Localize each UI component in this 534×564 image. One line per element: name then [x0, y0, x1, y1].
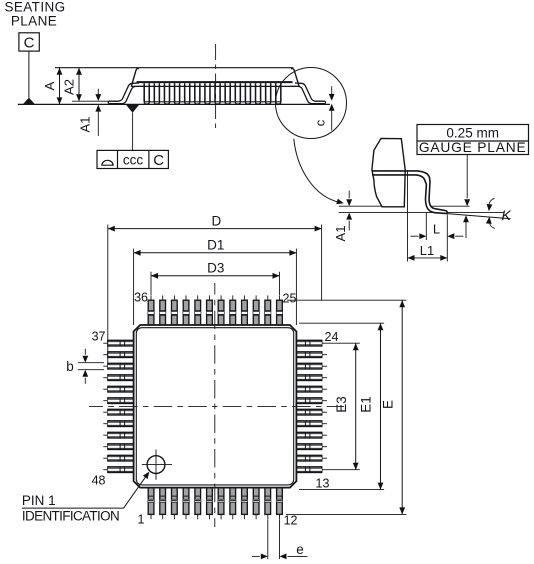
- pin 12 lead: [277, 487, 283, 519]
- svg-text:E1: E1: [358, 396, 373, 413]
- dimension c (in circle): [313, 86, 335, 130]
- ccc datum triangle: [126, 105, 140, 113]
- pin 23 lead: [296, 352, 327, 358]
- svg-text:PIN 1: PIN 1: [22, 493, 56, 508]
- pin 17 lead: [296, 421, 327, 427]
- svg-text:SEATING: SEATING: [4, 0, 65, 15]
- pin 25 lead: [277, 295, 283, 325]
- pin 6 lead: [207, 487, 213, 519]
- package body outer outline (chamfered): [134, 325, 297, 488]
- svg-text:c: c: [313, 119, 328, 126]
- pin 45 lead: [103, 432, 133, 438]
- svg-text:K: K: [502, 207, 512, 223]
- svg-text:12: 12: [284, 514, 298, 528]
- pin 20 lead: [296, 386, 327, 392]
- pin 16 lead: [296, 432, 327, 438]
- pin 11 lead: [265, 487, 271, 519]
- svg-text:b: b: [66, 359, 74, 374]
- pin 10 lead: [253, 487, 259, 519]
- pin 34 lead: [172, 295, 178, 325]
- pin 3 lead: [172, 487, 178, 519]
- comb far-lead bottom line: [144, 101, 281, 103]
- dimension K arcs: [486, 198, 512, 228]
- dimension D: [108, 214, 322, 363]
- pin 13 lead: [296, 467, 327, 473]
- svg-text:D1: D1: [207, 238, 224, 253]
- side view lead comb (near-side leads): [144, 83, 281, 102]
- dimension L: [410, 222, 463, 240]
- seating plane label: [4, 0, 65, 29]
- svg-text:1: 1: [138, 512, 145, 526]
- pin 44 lead: [103, 421, 133, 427]
- side view center line: [215, 44, 217, 131]
- svg-text:D: D: [212, 214, 222, 229]
- svg-text:L: L: [433, 222, 440, 237]
- dimension E3: [327, 343, 360, 470]
- svg-text:IDENTIFICATION: IDENTIFICATION: [22, 509, 119, 524]
- side view body bottom / lead shoulder lines: [137, 81, 293, 83]
- pin 5 lead: [195, 487, 201, 519]
- pin 37 lead: [103, 340, 133, 346]
- pin 1 lead: [148, 487, 154, 519]
- svg-text:24: 24: [325, 330, 339, 344]
- dimension A1 (detail): [333, 191, 352, 242]
- pin 21 lead: [296, 375, 327, 381]
- pin 29 lead: [230, 295, 236, 325]
- dimension e: [252, 520, 308, 560]
- A2/A1 extension line at standoff: [72, 100, 110, 102]
- pin 26 lead: [265, 295, 271, 325]
- pin 22 lead: [296, 363, 327, 369]
- pin 1 identification label and leader: [22, 470, 152, 524]
- svg-text:48: 48: [92, 474, 106, 488]
- pin 36 lead: [148, 295, 154, 325]
- svg-text:E3: E3: [334, 396, 349, 413]
- datum C box: [19, 33, 39, 98]
- pin 1 identification circle: [142, 450, 172, 480]
- pin 2 lead: [160, 487, 166, 519]
- detail zoom circle: [276, 68, 347, 139]
- pin 38 lead: [103, 352, 133, 358]
- svg-text:L1: L1: [420, 243, 434, 258]
- pin 32 lead: [195, 295, 201, 325]
- svg-text:A1: A1: [333, 226, 348, 242]
- gauge plane leader arrows: [466, 155, 468, 199]
- pin 35 lead: [160, 295, 166, 325]
- top view horizontal center line: [89, 405, 344, 407]
- detail body blob: [372, 138, 405, 206]
- pin 7 lead: [218, 487, 224, 519]
- top view vertical center line: [214, 283, 216, 527]
- comb feet: [144, 102, 281, 104]
- pin 42 lead: [103, 398, 133, 404]
- pin 33 lead: [183, 295, 189, 325]
- pin 48 lead: [103, 467, 133, 473]
- dimension A1 (side view): [78, 89, 102, 136]
- pin 9 lead: [242, 487, 248, 519]
- svg-text:PLANE: PLANE: [11, 14, 57, 29]
- svg-text:C: C: [24, 34, 35, 51]
- datum C triangle on seating plane: [23, 98, 35, 105]
- svg-text:0.25 mm: 0.25 mm: [446, 125, 499, 140]
- dimension b: [66, 349, 104, 384]
- pin 41 lead: [103, 386, 133, 392]
- pin 27 lead: [253, 295, 259, 325]
- detail lead: [408, 171, 447, 214]
- dimension E: [286, 300, 406, 514]
- pin 19 lead: [296, 398, 327, 404]
- pin 46 lead: [103, 444, 133, 450]
- svg-text:37: 37: [92, 330, 106, 344]
- pin 8 lead: [230, 487, 236, 519]
- pin 14 lead: [296, 455, 327, 461]
- svg-text:A1: A1: [78, 117, 93, 133]
- pin 47 lead: [103, 455, 133, 461]
- seating plane line (detail): [339, 212, 504, 214]
- package body inner outline: [136, 328, 293, 485]
- gauge plane box: [417, 125, 529, 156]
- pin 4 lead: [183, 487, 189, 519]
- svg-text:ccc: ccc: [123, 152, 144, 167]
- L/L1 extension lines: [408, 172, 448, 262]
- svg-text:25: 25: [283, 292, 297, 306]
- pin 18 lead: [296, 409, 327, 415]
- pin 15 lead: [296, 444, 327, 450]
- dimension L1: [408, 243, 448, 261]
- curved leader from circle to detail: [294, 139, 341, 203]
- package bottom / gauge plane thin line: [339, 205, 470, 207]
- K tilted foot line: [447, 214, 510, 219]
- dimension A: [42, 68, 62, 105]
- dimension D1: [134, 238, 297, 325]
- svg-text:D3: D3: [207, 261, 224, 276]
- dimension E1: [299, 323, 384, 489]
- dimension A2: [62, 68, 82, 102]
- svg-text:A2: A2: [62, 79, 77, 95]
- side view left lead profile: [108, 83, 144, 104]
- pin 31 lead: [207, 295, 213, 325]
- svg-text:E: E: [381, 400, 396, 409]
- ccc feature control frame: [97, 150, 168, 169]
- svg-text:36: 36: [134, 291, 148, 305]
- svg-text:A: A: [42, 81, 57, 90]
- seating plane line: [18, 103, 330, 105]
- svg-text:C: C: [153, 152, 164, 169]
- pin number labels: [92, 291, 339, 528]
- svg-text:13: 13: [316, 476, 330, 490]
- side view package body: [55, 68, 299, 87]
- svg-text:e: e: [296, 542, 304, 557]
- svg-text:GAUGE PLANE: GAUGE PLANE: [419, 140, 527, 155]
- pin 40 lead: [103, 375, 133, 381]
- pin 30 lead: [218, 295, 224, 325]
- pin 28 lead: [242, 295, 248, 325]
- side view right lead profile: [290, 83, 326, 104]
- pin 43 lead: [103, 409, 133, 415]
- pin 24 lead: [296, 340, 327, 346]
- pin 39 lead: [103, 363, 133, 369]
- dimension D3: [151, 261, 280, 295]
